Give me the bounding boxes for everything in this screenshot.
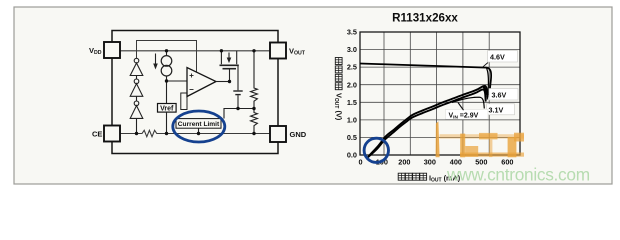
svg-text:R1131x26xx: R1131x26xx <box>392 12 458 25</box>
svg-text:CE: CE <box>92 130 102 139</box>
svg-text:3.1V: 3.1V <box>489 105 504 114</box>
svg-text:4.6V: 4.6V <box>490 52 505 61</box>
svg-text:1.0: 1.0 <box>347 115 357 124</box>
svg-text:Vref: Vref <box>160 105 174 112</box>
svg-text:Current Limit: Current Limit <box>178 121 220 128</box>
svg-text:3.0: 3.0 <box>347 45 357 54</box>
svg-text:3.6V: 3.6V <box>492 90 507 99</box>
svg-text:www.cntronics.com: www.cntronics.com <box>446 165 590 185</box>
svg-text:0.0: 0.0 <box>347 151 357 160</box>
svg-text:2.5: 2.5 <box>347 63 357 72</box>
svg-text:GND: GND <box>290 130 307 139</box>
svg-text:3.5: 3.5 <box>347 28 357 37</box>
svg-text:2.0: 2.0 <box>347 80 357 89</box>
svg-text:0.5: 0.5 <box>347 133 357 142</box>
svg-text:0: 0 <box>358 158 362 167</box>
svg-text:300: 300 <box>424 158 436 167</box>
svg-text:VIN =2.9V: VIN =2.9V <box>449 112 479 119</box>
svg-text:200: 200 <box>398 158 410 167</box>
svg-text:1.5: 1.5 <box>347 98 357 107</box>
